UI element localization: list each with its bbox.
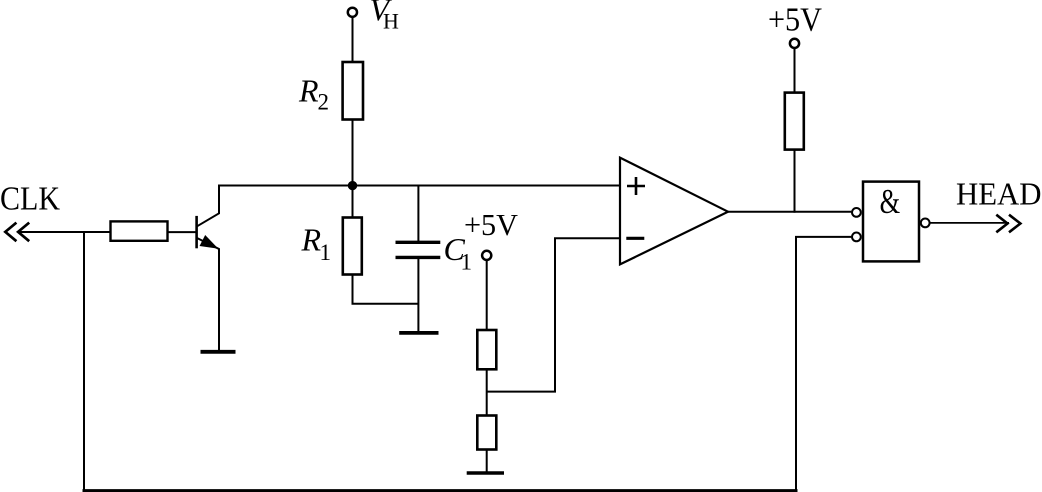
transistor Q1 collector: [197, 186, 219, 227]
label VH: [370, 0, 400, 34]
AND gate output bubble: [921, 219, 930, 228]
wire: CLK node down to bottom feedback: [83, 231, 85, 491]
transistor Q1 emitter arrowhead: [200, 236, 217, 248]
resistor R5 (pull-up): [785, 93, 804, 150]
capacitor C1 top plate: [396, 241, 441, 244]
wire: divider junction to op-amp minus input: [487, 238, 620, 391]
wire: main horizontal to C1 top plate: [417, 185, 419, 243]
wire: gate output to HEAD arrow: [931, 222, 1010, 224]
AND gate U2 body: [863, 182, 919, 262]
wire: collector node to op-amp + input (main horizontal): [218, 185, 620, 187]
junction dot node A: [348, 181, 357, 190]
ground for Q1 emitter: [201, 350, 236, 354]
label R1: [301, 222, 332, 265]
HEAD output arrow (double chevron pointing right): [996, 215, 1020, 233]
capacitor C1 bottom plate: [396, 256, 441, 259]
resistor R2: [343, 62, 363, 120]
wire: op-amp output to gate input 1: [728, 211, 851, 213]
wire: VH terminal to R2: [352, 18, 354, 63]
op-amp U1 body: [620, 158, 728, 265]
wire: C1 bottom plate to ground: [417, 257, 419, 331]
wire: R2 to junction node: [352, 120, 354, 188]
wire: +5V terminal to R3: [486, 261, 488, 331]
svg-text:1: 1: [320, 240, 332, 265]
svg-text:HEAD: HEAD: [956, 175, 1042, 211]
resistor R1: [343, 218, 362, 275]
svg-text:+5V: +5V: [464, 207, 519, 242]
svg-text:&: &: [880, 183, 901, 221]
op-amp - input marker: [626, 237, 644, 240]
op-amp + input marker: [627, 177, 645, 195]
wire: R1 bottom L-shape to capacitor bottom: [353, 275, 419, 304]
svg-text:CLK: CLK: [0, 181, 60, 218]
svg-text:R: R: [298, 72, 319, 108]
wire: bottom feedback horizontal: [83, 489, 798, 492]
wire: CLK arrow to base resistor: [18, 231, 111, 233]
wire: R5 to op-amp output node: [794, 150, 796, 213]
resistor R4 (divider lower): [477, 416, 496, 450]
svg-text:1: 1: [461, 250, 473, 275]
AND gate input bubble 1: [852, 208, 861, 217]
CLK input arrow (double chevron pointing left): [5, 223, 29, 242]
wire: base resistor to Q1 base: [168, 231, 197, 233]
svg-text:2: 2: [318, 90, 330, 115]
transistor Q1 emitter: [197, 238, 219, 351]
ground for divider: [467, 471, 504, 475]
resistor Rb (base resistor): [111, 221, 168, 240]
wire: +5V terminal to R5: [794, 49, 796, 94]
label R2: [298, 72, 329, 114]
AND gate input bubble 2: [852, 233, 861, 242]
svg-text:R: R: [301, 222, 322, 258]
svg-text:H: H: [383, 9, 399, 34]
wire: R3 to R4 through divider junction: [486, 369, 488, 416]
resistor R3 (divider upper): [477, 330, 496, 369]
wire: junction node to R1: [352, 186, 354, 219]
ground for C1: [399, 331, 438, 335]
svg-text:+5V: +5V: [768, 2, 822, 39]
terminal VH circle: [348, 8, 357, 17]
wire: R4 to ground: [486, 450, 488, 473]
label C1: [444, 231, 473, 275]
terminal +5V divider circle: [482, 251, 491, 260]
transistor Q1 base bar: [195, 216, 198, 248]
terminal +5V pull-up circle: [790, 39, 799, 48]
wire: bottom feedback up to gate input 2: [796, 237, 851, 490]
